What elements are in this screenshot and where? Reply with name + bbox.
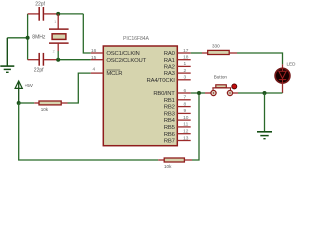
svg-text:11: 11: [183, 122, 188, 128]
svg-text:LED: LED: [287, 62, 297, 67]
label R1 value 10k: [41, 107, 49, 112]
pin number X1.2: [53, 49, 55, 53]
svg-text:9: 9: [183, 108, 186, 114]
pin number 18: [183, 55, 189, 61]
svg-text:8MHz: 8MHz: [32, 35, 46, 41]
pin name RA4/T0CKI: [147, 78, 176, 84]
svg-text:RB0/INT: RB0/INT: [153, 91, 175, 97]
button SW1: [211, 85, 233, 96]
power +5V terminal: [15, 81, 22, 103]
pin U1.6 RB0/INT stub: [177, 92, 190, 94]
pin number 3: [183, 75, 186, 81]
svg-text:RA2: RA2: [164, 65, 175, 71]
pin number 17: [183, 48, 189, 54]
wire: R3 to LED: [237, 53, 283, 64]
wire: RA0 to resistor R3: [191, 52, 202, 54]
pin name RA2: [164, 65, 175, 71]
button SW1 lead left: [205, 92, 211, 94]
pin number 8: [183, 101, 186, 107]
pin name RA3: [164, 71, 176, 77]
pin U1.1 RA2 stub: [177, 65, 190, 67]
svg-text:Button: Button: [214, 75, 228, 80]
label X1 value 8MHz: [32, 35, 46, 41]
label U1 value PIC16F84A: [123, 36, 150, 42]
svg-text:10k: 10k: [41, 107, 49, 112]
svg-text:15: 15: [91, 55, 97, 61]
wire: down to ground GND2: [264, 93, 266, 131]
resistor R1 10k (MCLR pull-up): [19, 101, 68, 105]
svg-text:RA0: RA0: [164, 51, 176, 57]
pin U1.17 RA0 stub: [177, 52, 190, 54]
node: crystal bottom junction: [56, 58, 60, 62]
label C2 value 22pf: [34, 68, 44, 74]
svg-text:4: 4: [93, 67, 96, 73]
pin U1.18 RA1 stub: [177, 59, 190, 61]
svg-text:RA3: RA3: [164, 71, 176, 77]
svg-text:7: 7: [183, 95, 186, 101]
svg-text:2: 2: [53, 49, 55, 53]
pin number 2: [183, 68, 186, 74]
capacitor C1 22pf (top): [28, 7, 57, 21]
svg-text:2: 2: [183, 68, 186, 74]
label R3 value 330: [212, 44, 220, 49]
pin number 9: [183, 108, 186, 114]
svg-text:RB3: RB3: [164, 112, 176, 118]
pin U1.2 RA3 stub: [177, 72, 190, 74]
pin U1.8 RB2 stub: [177, 106, 190, 108]
svg-text:+5V: +5V: [25, 83, 34, 88]
pin name RB4: [164, 118, 176, 124]
svg-text:RB4: RB4: [164, 118, 176, 124]
svg-text:17: 17: [183, 48, 189, 54]
svg-text:OSC2/CLKOUT: OSC2/CLKOUT: [106, 58, 146, 64]
resistor R3 330: [202, 50, 237, 54]
svg-text:RB6: RB6: [164, 132, 176, 138]
pin U1.4 MCLR stub: [91, 72, 104, 74]
pin name OSC2/CLKOUT: [106, 58, 146, 64]
pin U1.11 RB5 stub: [177, 126, 190, 128]
resistor R2 10k (bottom): [158, 158, 192, 162]
wire: OSC2 net: [60, 59, 91, 61]
pin name OSC1/CLKIN: [106, 51, 139, 57]
pin number 10: [183, 115, 189, 121]
node: rail/ground junction: [26, 36, 30, 40]
svg-text:RB5: RB5: [164, 125, 176, 131]
svg-text:1: 1: [183, 61, 186, 67]
pin name RA1: [164, 58, 175, 64]
pin number 16: [91, 48, 97, 54]
pin number 13: [183, 135, 189, 141]
svg-text:RB7: RB7: [164, 139, 175, 145]
pin U1.16 OSC1/CLKIN stub: [91, 52, 104, 54]
label Button: [214, 75, 228, 80]
label R2 value 10k: [164, 164, 172, 169]
button SW1 lead right: [233, 92, 238, 94]
svg-text:MCLR: MCLR: [106, 71, 122, 77]
svg-text:16: 16: [91, 48, 97, 54]
LED D1: [275, 64, 290, 93]
pin name RB5: [164, 125, 176, 131]
pin name MCLR (overlined): [106, 70, 122, 77]
svg-text:RB2: RB2: [164, 105, 175, 111]
svg-text:22pf: 22pf: [34, 68, 44, 74]
wire: OSC1 net top: [60, 13, 83, 15]
svg-text:10: 10: [183, 115, 189, 121]
wire: MCLR net: [68, 73, 91, 103]
ground GND1 (top-left): [0, 38, 14, 73]
wire: button to LED bottom / ground: [238, 92, 283, 94]
pin number 7: [183, 95, 186, 101]
svg-text:6: 6: [183, 88, 186, 94]
button SW1 red actuator dot: [232, 84, 237, 89]
svg-text:12: 12: [183, 129, 189, 135]
svg-text:PIC16F84A: PIC16F84A: [123, 36, 150, 42]
pin name RB0/INT: [153, 91, 175, 97]
IC U1 PIC16F84A body: [103, 46, 177, 146]
wire: RB0 net to button: [191, 92, 205, 94]
pin U1.3 RA4/T0CKI stub: [177, 79, 190, 81]
pin U1.13 RB7 stub: [177, 140, 190, 142]
wire: ground tap horizontal: [7, 37, 27, 39]
ground GND2 (right): [257, 132, 272, 139]
pin U1.12 RB6 stub: [177, 133, 190, 135]
pin U1.10 RB4 stub: [177, 119, 190, 121]
pin U1.7 RB1 stub: [177, 99, 190, 101]
svg-text:RA4/T0CKI: RA4/T0CKI: [147, 78, 176, 84]
label +5V: [25, 83, 34, 88]
pin name RB1: [164, 98, 175, 104]
node: +5V junction: [17, 101, 21, 105]
svg-text:330: 330: [212, 44, 220, 49]
wire: left ground rail vertical: [27, 14, 29, 60]
pin name RB2: [164, 105, 175, 111]
pin U1.9 RB3 stub: [177, 112, 190, 114]
pin number 4: [93, 67, 96, 73]
pin name RB7: [164, 139, 175, 145]
svg-text:8: 8: [183, 101, 186, 107]
pin number 15: [91, 55, 97, 61]
wire: RB0 net vertical right of R2: [192, 93, 199, 160]
node: crystal top junction: [56, 12, 60, 16]
capacitor C2 22pf (bottom): [28, 53, 57, 66]
pin number 1: [183, 61, 186, 67]
wire: OSC1 net vertical: [83, 14, 91, 53]
svg-text:18: 18: [183, 55, 189, 61]
label D1 LED: [287, 62, 297, 67]
pin name RA0: [164, 51, 176, 57]
label C1 value 22pf: [35, 1, 45, 7]
pin name RB6: [164, 132, 176, 138]
svg-text:1: 1: [54, 20, 56, 24]
svg-text:3: 3: [183, 75, 186, 81]
pin number X1.1: [54, 20, 56, 24]
node: ground junction: [263, 91, 267, 95]
node: RB0/button junction: [197, 91, 201, 95]
svg-text:10k: 10k: [164, 164, 172, 169]
pin name RB3: [164, 112, 176, 118]
pin number 6: [183, 88, 186, 94]
crystal X1 8MHz: [49, 14, 69, 60]
pin U1.15 OSC2/CLKOUT stub: [91, 59, 104, 61]
wire: +5V down left side: [19, 103, 159, 160]
pin number 11: [183, 122, 188, 128]
svg-text:13: 13: [183, 135, 189, 141]
svg-text:22pf: 22pf: [35, 1, 45, 7]
pin number 12: [183, 129, 189, 135]
svg-text:RA1: RA1: [164, 58, 175, 64]
svg-text:OSC1/CLKIN: OSC1/CLKIN: [106, 51, 139, 57]
svg-text:RB1: RB1: [164, 98, 175, 104]
